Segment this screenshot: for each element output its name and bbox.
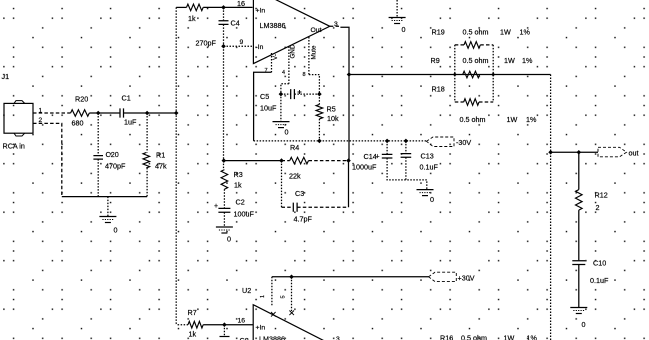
node junction V+ rail [289, 275, 294, 280]
svg-text:R3: R3 [234, 170, 243, 179]
resistor R12 [576, 190, 583, 211]
svg-text:4: 4 [282, 70, 285, 76]
svg-text:7: 7 [265, 68, 268, 74]
svg-text:0.5 ohm: 0.5 ohm [460, 115, 486, 124]
connector J1 (RCA jack) [4, 103, 33, 133]
wire U1 Mute pin stub [308, 37, 310, 75]
power flag -30V [427, 137, 455, 147]
svg-text:5: 5 [281, 295, 287, 298]
svg-text:0: 0 [227, 235, 231, 244]
resistor R18 [455, 101, 464, 103]
svg-text:1%: 1% [526, 115, 537, 124]
svg-text:C10: C10 [593, 259, 606, 268]
svg-text:10k: 10k [327, 114, 339, 123]
svg-text:1W: 1W [504, 56, 515, 65]
svg-text:Mute: Mute [311, 45, 318, 59]
svg-text:1W: 1W [500, 28, 511, 37]
wire out node to flag [551, 151, 598, 153]
resistor R20 [71, 110, 90, 117]
svg-text:C13: C13 [421, 152, 434, 161]
resistor R1 [143, 153, 150, 168]
resistor R2 1k [187, 4, 204, 11]
svg-text:0: 0 [582, 320, 586, 329]
svg-text:1000uF: 1000uF [352, 163, 377, 172]
svg-text:100uF: 100uF [234, 210, 255, 219]
wire GND pin to ground [281, 84, 289, 122]
svg-text:C1: C1 [122, 94, 131, 103]
wire C14 C13 to ground [387, 157, 427, 189]
svg-text:1%: 1% [522, 56, 533, 65]
wire output bus down [550, 75, 552, 340]
svg-text:R9: R9 [431, 56, 440, 65]
ground input section [99, 216, 116, 218]
svg-text:-In: -In [256, 44, 264, 51]
svg-text:0.5 ohm: 0.5 ohm [463, 56, 489, 65]
wire R12 to C10 [578, 210, 580, 260]
svg-text:0: 0 [285, 128, 289, 137]
resistor R3 1k [221, 170, 228, 190]
flag out [598, 147, 627, 157]
svg-text:470pF: 470pF [105, 162, 126, 171]
svg-text:0: 0 [430, 195, 434, 204]
svg-text:C4: C4 [231, 19, 240, 28]
svg-text:R1: R1 [156, 151, 165, 160]
op-amp U2 LM3886 triangle [253, 305, 331, 340]
svg-text:+: + [214, 203, 218, 210]
svg-text:10uF: 10uF [260, 104, 277, 113]
svg-text:3: 3 [334, 21, 338, 28]
svg-text:C2: C2 [236, 198, 245, 207]
wire resistor bank right vertical [492, 45, 494, 102]
svg-text:C20: C20 [106, 150, 119, 159]
svg-text:1%: 1% [527, 334, 538, 340]
wire R3 to C2 [223, 189, 225, 208]
svg-text:R7: R7 [188, 308, 197, 317]
node junction -in [221, 44, 226, 49]
node junction out node [548, 150, 553, 155]
svg-text:16: 16 [237, 0, 245, 8]
wire C1 to input node [124, 112, 177, 114]
node junction C3 left [279, 158, 284, 163]
wire R20 to C1 [89, 112, 120, 114]
svg-text:270pF: 270pF [196, 38, 217, 47]
wire C3 right branch [348, 161, 350, 208]
wire C8 stem [223, 325, 225, 337]
ground -30V caps [417, 189, 434, 191]
capacitor C13 [401, 154, 412, 158]
node junction at R1 tap [145, 111, 150, 116]
pin cross mark 2 [289, 311, 294, 316]
wire Mute pin to mute node [309, 75, 320, 95]
svg-text:C8: C8 [240, 336, 249, 340]
svg-text:1k: 1k [188, 14, 196, 23]
op-amp U1 LM3886 triangle [253, 0, 329, 64]
svg-text:1k: 1k [189, 330, 197, 339]
svg-text:0: 0 [114, 226, 118, 235]
node junction output to R9 [347, 72, 352, 77]
node junction at C20 tap [96, 111, 101, 116]
svg-text:22k: 22k [289, 172, 301, 181]
svg-text:LM3886: LM3886 [260, 21, 286, 30]
svg-text:R4: R4 [290, 143, 299, 152]
svg-text:680: 680 [72, 119, 84, 128]
resistor R19 [455, 44, 464, 46]
wire output to resistor bank [349, 74, 551, 76]
wire R7 input [187, 324, 189, 326]
wire input to R2 [176, 6, 186, 8]
wire J1 pin1 to R20 [33, 112, 71, 114]
svg-text:V-: V- [272, 54, 279, 60]
capacitor C10 [572, 261, 585, 265]
svg-text:0.1uF: 0.1uF [590, 276, 609, 285]
svg-text:0.5 ohm: 0.5 ohm [463, 28, 489, 37]
node junction R5 bottom [317, 139, 322, 144]
node junction bank left [453, 73, 457, 77]
node junction mute node [317, 92, 322, 97]
node junction R12 top [577, 150, 582, 155]
svg-text:LM3886: LM3886 [259, 335, 285, 340]
node junction C4 top [221, 5, 226, 10]
node junction R4 right [346, 158, 351, 163]
svg-text:RCA in: RCA in [3, 142, 25, 151]
wire feedback vertical [223, 46, 225, 160]
wire U1 output [330, 25, 341, 27]
svg-text:47k: 47k [155, 162, 167, 171]
svg-text:9: 9 [240, 39, 244, 46]
node junction C8 top [222, 322, 227, 327]
capacitor C5 10uF [291, 89, 295, 99]
svg-text:1: 1 [260, 295, 266, 298]
svg-text:8: 8 [303, 72, 306, 78]
ground feedback [216, 226, 233, 228]
svg-text:0: 0 [402, 25, 406, 34]
node junction C5 left [279, 92, 284, 97]
svg-text:out: out [629, 149, 639, 158]
wire U2 V+ stub [271, 277, 273, 306]
wire -in to U1 [224, 45, 253, 47]
svg-text:C5: C5 [260, 92, 269, 101]
svg-text:+In: +In [256, 8, 266, 15]
svg-text:C3: C3 [295, 189, 304, 198]
svg-text:0.1uF: 0.1uF [420, 163, 439, 172]
ground input section stem [107, 197, 109, 217]
wire R7 to U2 [203, 324, 253, 326]
svg-text:C14: C14 [364, 152, 377, 161]
pin cross mark 1 [271, 312, 276, 317]
svg-text:R5: R5 [327, 105, 336, 114]
power flag +30V [429, 272, 457, 281]
svg-text:16: 16 [238, 318, 246, 325]
svg-text:Out: Out [311, 27, 322, 34]
node junction C13 top [404, 139, 409, 144]
svg-text:2: 2 [596, 203, 600, 212]
svg-text:1%: 1% [520, 28, 531, 37]
svg-text:R19: R19 [432, 28, 445, 37]
svg-text:1W: 1W [504, 334, 515, 340]
wire C4 to -in node [223, 24, 225, 46]
wire C2 to ground [223, 212, 225, 227]
ground top [389, 17, 406, 19]
wire C14 stem [386, 141, 388, 154]
svg-text:R16: R16 [440, 334, 453, 340]
wire U2 second V+ stub [291, 277, 293, 311]
svg-text:+In: +In [256, 325, 266, 332]
svg-text:U2: U2 [242, 286, 251, 295]
wire +30V rail [272, 276, 429, 278]
ground zobel [570, 307, 587, 309]
capacitor C3 [282, 206, 291, 208]
svg-text:3: 3 [336, 336, 340, 340]
resistor R7 1k [188, 321, 203, 328]
wire top ground stem [396, 0, 398, 18]
capacitor C2 100uF [218, 208, 230, 212]
wire R1 stem top [146, 113, 148, 153]
resistor R4 22k [282, 160, 290, 162]
wire C4 stem [223, 7, 225, 20]
svg-text:1W: 1W [507, 115, 518, 124]
capacitor C8 top plate [220, 336, 230, 338]
wire feedback to R4 [224, 160, 282, 162]
resistor R9 [463, 71, 480, 78]
node junction feedback [222, 158, 227, 163]
wire -30V rail [254, 140, 427, 142]
capacitor C1 [120, 108, 124, 117]
wire C20 to bottom rail [97, 159, 99, 197]
svg-text:+30V: +30V [458, 274, 475, 283]
ground U1 gnd pin [273, 121, 290, 123]
wire R1 to bottom rail [146, 168, 148, 197]
wire V- pin to left rail [254, 72, 272, 141]
svg-text:0.5 ohm: 0.5 ohm [461, 334, 487, 340]
wire U1 GND pin stub [288, 47, 290, 84]
svg-text:-30V: -30V [456, 138, 471, 147]
svg-text:R12: R12 [595, 191, 608, 200]
wire resistor bank left vertical [454, 45, 456, 102]
wire C13 stem [405, 141, 407, 153]
wire J1 pin2 down [33, 123, 62, 196]
wire R12 stem [578, 152, 580, 189]
svg-text:4.7pF: 4.7pF [294, 215, 313, 224]
wire C10 to ground [578, 265, 580, 308]
node junction input node [174, 111, 179, 116]
capacitor C20 [93, 156, 103, 160]
wire C3 left branch [281, 161, 283, 208]
wire R2 to U1 +in [203, 6, 252, 8]
wire bottom input rail [62, 196, 147, 198]
svg-text:R18: R18 [432, 85, 445, 94]
svg-text:1k: 1k [234, 181, 242, 190]
capacitor C14 [382, 154, 393, 158]
resistor R5 10k [318, 94, 320, 104]
wire input node vertical [176, 7, 188, 324]
svg-text:R20: R20 [75, 95, 88, 104]
svg-text:J1: J1 [2, 72, 10, 81]
wire C20 stem [97, 113, 99, 155]
capacitor C4 [219, 21, 229, 25]
svg-text:1uF: 1uF [124, 118, 137, 127]
wire U1 V- pin stub [271, 53, 273, 72]
svg-text:GND: GND [290, 44, 297, 58]
node junction bank right [491, 73, 495, 77]
node junction C14 top [385, 139, 390, 144]
